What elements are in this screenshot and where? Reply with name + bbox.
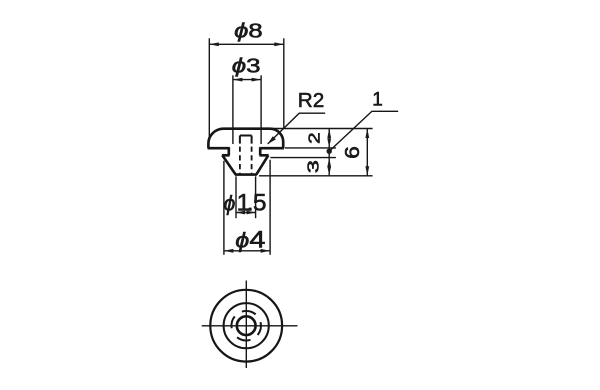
dim 6 arrow up: [365, 129, 369, 139]
svg-text:R2: R2: [298, 89, 325, 112]
dim 3 arrow up: [327, 158, 331, 168]
dim phi3 extension left: [232, 75, 234, 144]
dim phi1.5 extension right: [255, 176, 257, 218]
bottom view broken arc top: [242, 311, 256, 314]
dim phi1.5 line: [236, 212, 256, 214]
svg-text:3: 3: [306, 160, 323, 173]
svg-text:1: 1: [372, 90, 383, 111]
leg taper left: [222, 155, 235, 174]
neck left wall: [227, 147, 230, 155]
dim 3 arrow down: [327, 166, 331, 176]
bottom view outer circle: [210, 290, 282, 362]
leader dot for callout 1: [327, 149, 332, 154]
dim phi4 arrow right: [261, 249, 271, 253]
barb shoulder left: [222, 154, 230, 157]
dim 6 vertical line: [366, 129, 368, 176]
dim 2 arrow down: [327, 138, 331, 148]
dim 2 arrow up: [327, 129, 331, 139]
bottom view flange circle: [224, 303, 269, 348]
dim phi8 extension left: [208, 38, 210, 139]
leg bottom face: [235, 173, 257, 176]
dim phi3 extension right: [260, 75, 262, 144]
svg-text:ϕ1.5: ϕ1.5: [224, 189, 267, 216]
head underside left: [208, 147, 230, 150]
leader line R2: [268, 113, 325, 144]
dim phi1.5 arrow left: [236, 211, 245, 215]
dim phi4 extension right: [269, 160, 271, 255]
dim phi3 line: [233, 79, 261, 81]
bottom view centerline horizontal: [202, 325, 298, 327]
hidden hole right (dashed): [251, 147, 253, 175]
bottom view broken arc right: [258, 322, 261, 335]
barb shoulder right: [259, 154, 268, 157]
extension line barb shoulder: [270, 157, 336, 159]
neck right wall: [259, 147, 262, 155]
hole recess left wall: [239, 136, 241, 144]
leg taper right: [256, 155, 268, 174]
bottom view broken arc left: [231, 316, 234, 328]
dim phi1.5 extension left: [235, 176, 237, 218]
dim phi1.5 arrow right: [247, 211, 256, 215]
bottom view centerline vertical: [245, 281, 247, 369]
dim phi3 arrow right: [252, 78, 262, 82]
head underside right: [259, 147, 284, 150]
bottom view inner hole circle: [237, 316, 256, 335]
extension line leg bottom: [259, 175, 373, 177]
hidden hole left (dashed): [239, 147, 241, 175]
hole recess top edge: [240, 135, 252, 137]
dim phi4 extension left: [223, 161, 225, 255]
leader line callout 1: [329, 111, 398, 151]
svg-text:2: 2: [306, 132, 323, 144]
svg-text:ϕ3: ϕ3: [232, 55, 261, 78]
dim phi8 line: [209, 43, 283, 45]
extension line head top: [271, 128, 373, 130]
dim phi8 arrow left: [209, 42, 219, 46]
dim phi8 extension right: [283, 38, 285, 127]
svg-text:6: 6: [342, 146, 364, 159]
dim phi4 arrow left: [224, 249, 234, 253]
bottom view broken arc bottom: [237, 337, 250, 340]
grommet head outline (section view): [208, 129, 283, 149]
extension line head underside: [285, 147, 336, 149]
svg-text:ϕ8: ϕ8: [234, 19, 262, 42]
leader R2 arrowhead: [267, 136, 276, 144]
dim phi8 arrow right: [274, 42, 284, 46]
dim phi3 arrow left: [233, 78, 243, 82]
dim phi4 line: [224, 250, 270, 252]
svg-text:ϕ4: ϕ4: [235, 227, 265, 254]
dim 2-3 vertical line: [328, 129, 330, 176]
dim 6 arrow down: [365, 166, 369, 176]
hole recess right wall: [251, 136, 253, 144]
